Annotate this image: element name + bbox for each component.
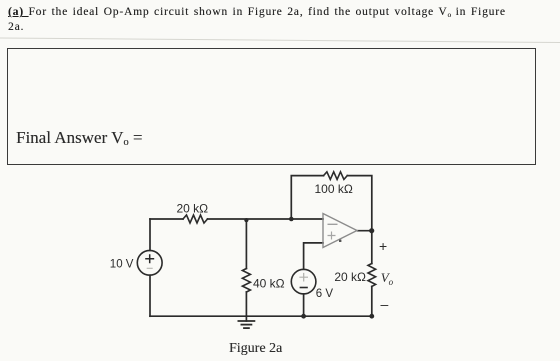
svg-text:Vo: Vo xyxy=(381,270,394,287)
svg-text:20 kΩ: 20 kΩ xyxy=(177,202,209,216)
svg-text:+: + xyxy=(379,238,387,254)
svg-text:20 kΩ: 20 kΩ xyxy=(334,270,366,284)
svg-text:100 kΩ: 100 kΩ xyxy=(315,182,353,196)
svg-text:10 V: 10 V xyxy=(110,258,134,270)
svg-text:–: – xyxy=(381,296,389,312)
svg-text:40 kΩ: 40 kΩ xyxy=(253,276,285,290)
svg-text:6 V: 6 V xyxy=(316,288,334,300)
